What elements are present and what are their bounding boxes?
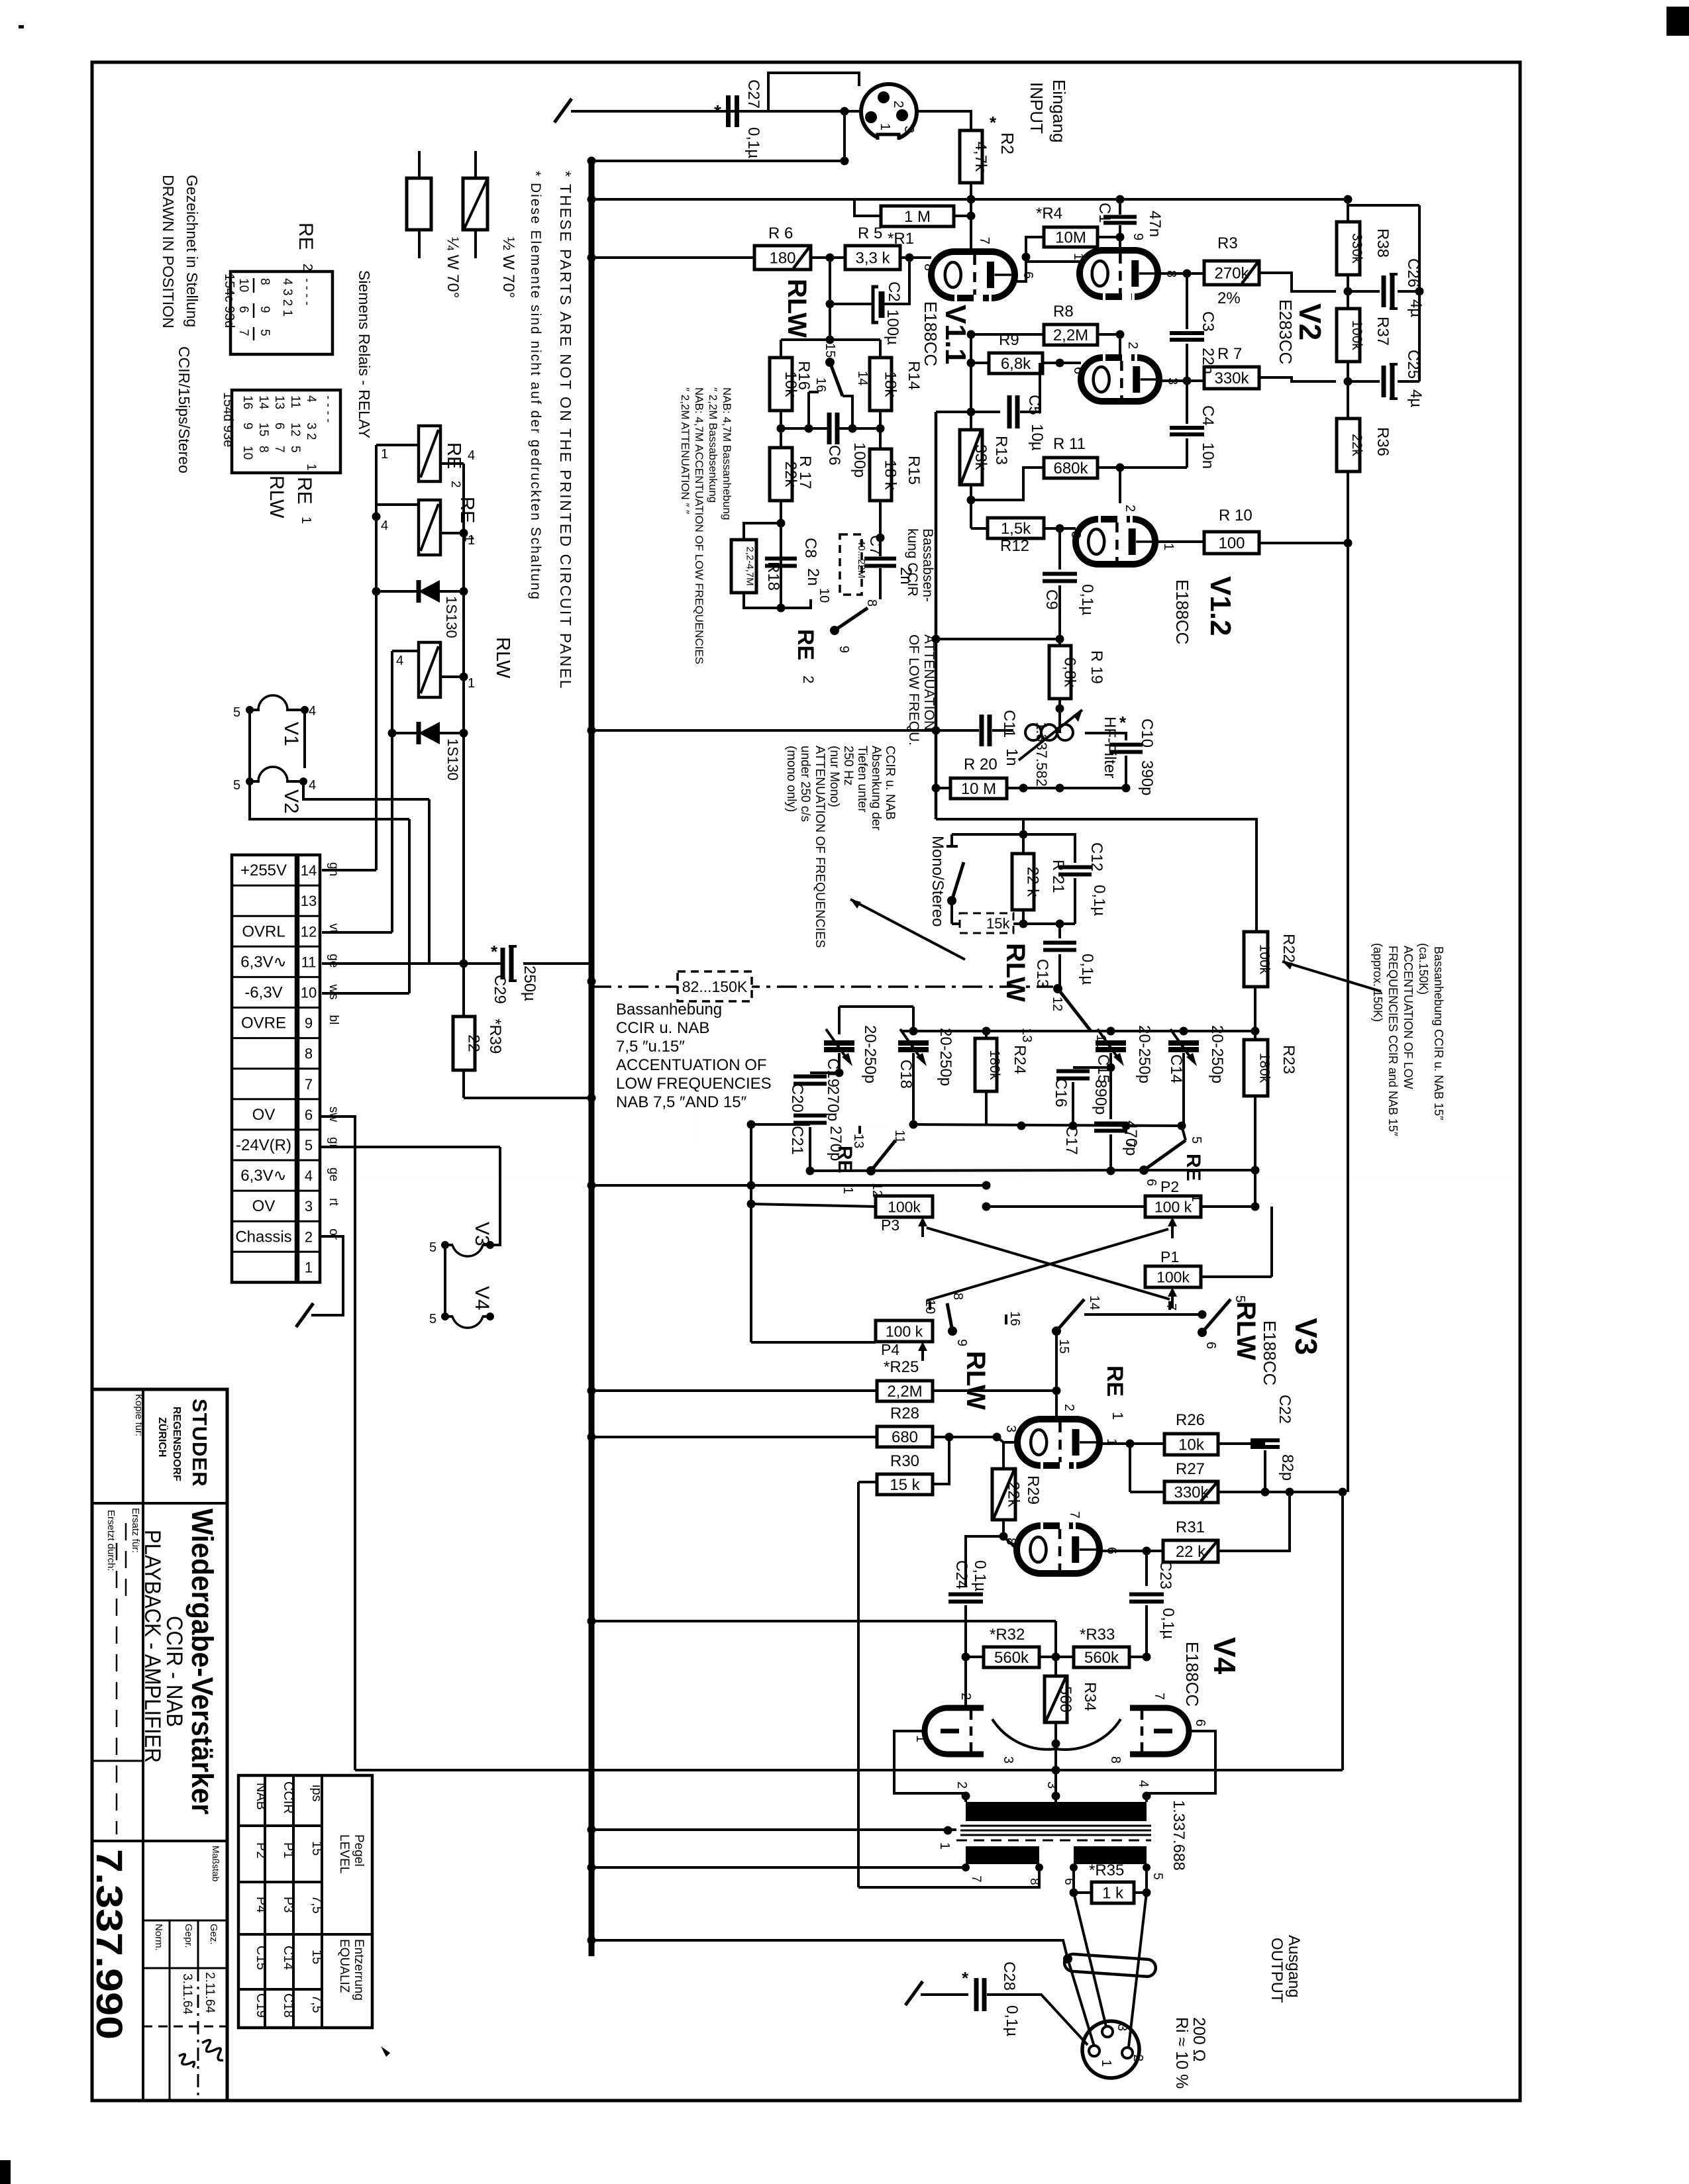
svg-text:rt: rt xyxy=(327,1198,340,1206)
wire R1-right xyxy=(954,215,971,217)
svg-text:R 20: R 20 xyxy=(964,756,998,773)
pin 8 V3b xyxy=(1003,1538,1018,1545)
label R37 xyxy=(1374,317,1392,346)
pin 2 V1.2b xyxy=(1123,505,1137,512)
resistor R19 xyxy=(1049,639,1079,733)
resistor R9 xyxy=(989,353,1043,373)
svg-text:1: 1 xyxy=(1071,253,1086,260)
svg-text:270p: 270p xyxy=(824,1086,842,1121)
svg-text:R34: R34 xyxy=(1081,1682,1099,1711)
svg-text:+255V: +255V xyxy=(240,862,287,879)
svg-text:CCIR: CCIR xyxy=(281,1781,295,1814)
tube V3a xyxy=(1017,1419,1100,1465)
svg-text:C4: C4 xyxy=(1199,405,1217,426)
svg-text:2: 2 xyxy=(891,101,905,108)
label C3 xyxy=(1199,311,1217,374)
svg-text:5: 5 xyxy=(1151,1873,1164,1880)
svg-text:18 k: 18 k xyxy=(882,460,899,490)
resistor R40 dashed xyxy=(840,534,880,595)
Gez label xyxy=(208,1924,219,1945)
svg-text:9: 9 xyxy=(954,1339,969,1346)
signature scribble 1 xyxy=(202,2040,223,2061)
rail y2930 output xyxy=(588,1936,1073,1964)
label C2 xyxy=(884,281,903,345)
svg-text:0,1µ: 0,1µ xyxy=(1078,584,1096,615)
svg-text:R13: R13 xyxy=(992,436,1010,465)
svg-text:3: 3 xyxy=(1003,1425,1018,1432)
resistor R39 xyxy=(453,964,596,1103)
pin labels V4 right xyxy=(1108,1693,1207,1763)
tube V1.1 xyxy=(931,252,1015,298)
label R25 xyxy=(884,1358,919,1376)
capacitor C23 xyxy=(1129,1551,1164,1662)
resistor R2 xyxy=(960,130,990,183)
wiper P3 xyxy=(918,1217,927,1237)
note Bassabsenkung kung CCIR xyxy=(905,528,935,602)
wire pin3 V3a xyxy=(997,1437,1017,1469)
wire bus-y243 xyxy=(588,111,849,166)
label R11 xyxy=(1053,435,1086,453)
label R16 xyxy=(795,361,813,390)
svg-text:LOW FREQUENCIES: LOW FREQUENCIES xyxy=(616,1075,772,1093)
svg-text:2: 2 xyxy=(1123,505,1137,512)
svg-text:R16: R16 xyxy=(795,361,813,390)
wire R36-R10 xyxy=(1347,472,1349,543)
label R1 xyxy=(888,230,914,248)
svg-text:1: 1 xyxy=(1161,543,1176,550)
switch arm 14 xyxy=(830,362,870,428)
pin 5 V3h xyxy=(429,1240,436,1255)
capacitor C7 xyxy=(864,559,896,595)
svg-text:E188CC: E188CC xyxy=(921,301,941,366)
svg-text:7,5: 7,5 xyxy=(309,1895,324,1914)
wire C26-top xyxy=(1348,199,1419,291)
resistor R32 xyxy=(966,1647,1056,1667)
svg-text:P2: P2 xyxy=(254,1842,268,1858)
svg-text:7: 7 xyxy=(1152,1693,1166,1700)
svg-text:180k: 180k xyxy=(987,1050,1002,1080)
svg-text:*R4: *R4 xyxy=(1036,205,1062,223)
svg-text:14: 14 xyxy=(301,862,317,879)
svg-text:C1: C1 xyxy=(1096,203,1113,223)
svg-text:C7: C7 xyxy=(866,535,884,556)
svg-text:RE: RE xyxy=(293,477,315,505)
wire R2-down xyxy=(967,183,976,252)
diode D2 1S130 xyxy=(392,722,464,744)
transformer secondary a xyxy=(966,1846,1039,1864)
svg-text:C24: C24 xyxy=(952,1560,970,1589)
label 154d93e xyxy=(221,392,235,447)
wire RE2-bus xyxy=(834,630,835,639)
svg-text:5: 5 xyxy=(305,1137,313,1154)
wire pin4 ge2 xyxy=(320,1177,1519,1178)
wire C29-bus xyxy=(523,962,591,965)
svg-text:*R25: *R25 xyxy=(884,1358,919,1376)
switch Mono/Stereo xyxy=(947,819,1075,924)
svg-text:R 7: R 7 xyxy=(1217,345,1242,363)
label HF-Filter xyxy=(1101,717,1119,778)
wire RE1m-RLWr xyxy=(1056,1311,1207,1333)
rail y1768 xyxy=(806,1167,1145,1175)
svg-text:Eingang: Eingang xyxy=(1049,79,1069,142)
title PLAYBACK-AMPLIFIER xyxy=(140,1530,165,1763)
svg-text:Ri ≈ 10 %: Ri ≈ 10 % xyxy=(1172,2017,1191,2089)
wire pin14 gn xyxy=(322,869,376,871)
svg-text:10n: 10n xyxy=(1199,442,1217,469)
switch RE2 arm xyxy=(830,608,868,653)
label R7 xyxy=(1217,345,1242,363)
svg-text:1: 1 xyxy=(304,464,318,471)
rail y1700 xyxy=(913,1122,1186,1130)
svg-text:NAB 7,5 ″AND 15″: NAB 7,5 ″AND 15″ xyxy=(616,1093,747,1111)
svg-text:C3: C3 xyxy=(1199,311,1217,332)
pin 1 V1.2b xyxy=(1161,543,1176,550)
label R13 xyxy=(992,436,1010,465)
tube V4 right half xyxy=(1130,1657,1189,1754)
wire P2-right xyxy=(1201,1170,1260,1211)
svg-text:Ersetzt durch:: Ersetzt durch: xyxy=(105,1510,117,1571)
label R29 xyxy=(1024,1475,1042,1505)
svg-text:V3: V3 xyxy=(471,1222,493,1246)
svg-text:1: 1 xyxy=(937,1842,952,1850)
svg-text:6,3V∿: 6,3V∿ xyxy=(240,1167,286,1185)
svg-text:11: 11 xyxy=(892,1130,907,1144)
wire C21-rail xyxy=(809,1127,811,1171)
svg-text:10M: 10M xyxy=(1055,229,1086,247)
rail y1520 xyxy=(839,1005,913,1008)
wire P1-right xyxy=(1201,1207,1272,1277)
label RLW right big xyxy=(1231,1301,1260,1360)
svg-text:2: 2 xyxy=(448,481,462,488)
svg-text:C11: C11 xyxy=(1000,710,1018,738)
svg-text:6: 6 xyxy=(272,422,286,430)
svg-text:ips: ips xyxy=(309,1785,324,1802)
svg-text:4µ: 4µ xyxy=(1407,389,1425,407)
svg-text:RLW: RLW xyxy=(961,1351,990,1410)
wire V4R bracket xyxy=(1143,1731,1216,1802)
svg-text:6: 6 xyxy=(1021,272,1035,279)
label 1S130 D2 xyxy=(444,738,461,781)
equalization table grid xyxy=(238,1775,372,2028)
svg-text:154d 93e: 154d 93e xyxy=(221,392,235,447)
svg-text:ge: ge xyxy=(327,1167,340,1181)
svg-text:2,2M: 2,2M xyxy=(1053,326,1088,344)
svg-text:330k: 330k xyxy=(1349,233,1364,264)
svg-text:560k: 560k xyxy=(1084,1649,1119,1667)
wiper P2 xyxy=(1168,1217,1177,1238)
capacitor C25 xyxy=(1348,291,1419,399)
svg-text:OVRE: OVRE xyxy=(241,1015,286,1032)
STUDER logo xyxy=(188,1399,211,1487)
svg-text:P2: P2 xyxy=(1160,1178,1179,1195)
label R3 xyxy=(1217,234,1238,252)
svg-text:200 Ω: 200 Ω xyxy=(1190,2017,1208,2061)
heater V1 xyxy=(246,695,309,768)
resistor R1 1M xyxy=(881,206,954,226)
svg-text:C13: C13 xyxy=(1033,959,1051,988)
date 2.11.64 xyxy=(203,1972,217,2013)
svg-text:14: 14 xyxy=(256,395,270,410)
transformer sec pins xyxy=(962,1863,1164,1885)
label C9 xyxy=(1043,584,1096,615)
svg-text:R2: R2 xyxy=(998,132,1017,154)
capacitor C24 xyxy=(948,1595,983,1662)
svg-text:C18: C18 xyxy=(897,1060,915,1089)
svg-text:ACCENTUATION OF LOW: ACCENTUATION OF LOW xyxy=(1402,946,1415,1089)
svg-text:10: 10 xyxy=(301,984,317,1001)
wire R35-xlr3 xyxy=(1074,1893,1106,2026)
wire R12-right xyxy=(1044,524,1076,533)
svg-text:1: 1 xyxy=(841,1187,855,1194)
dash-dot link xyxy=(588,977,1054,987)
svg-text:½ W 70°: ½ W 70° xyxy=(499,237,517,298)
legend label 1/4W xyxy=(444,237,462,298)
svg-text:2: 2 xyxy=(958,1693,973,1700)
svg-text:Mono/Stereo: Mono/Stereo xyxy=(929,836,947,926)
capacitor C28 xyxy=(976,1978,984,2011)
svg-text:1 k: 1 k xyxy=(1102,1885,1124,1903)
svg-text:Siemens Relais - RELAY: Siemens Relais - RELAY xyxy=(356,270,373,438)
svg-text:Chassis: Chassis xyxy=(235,1228,291,1246)
wire ground-xlr xyxy=(571,107,861,116)
svg-text:180k: 180k xyxy=(1256,1053,1272,1083)
svg-text:FREQUENCIES CCIR and NAB 15: FREQUENCIES CCIR and NAB 15″ xyxy=(1386,946,1400,1136)
svg-text:22k: 22k xyxy=(1349,434,1364,456)
svg-text:6: 6 xyxy=(1144,1179,1158,1186)
pin 5 V4h xyxy=(429,1312,436,1326)
label C11 xyxy=(1000,710,1021,766)
pin 3 V3a xyxy=(1003,1425,1018,1432)
wire R17-down xyxy=(777,501,786,613)
pointer line 15k xyxy=(850,899,965,960)
wiper P4 xyxy=(918,1342,927,1361)
note Bassanhebung block xyxy=(616,1001,772,1111)
svg-text:HF-Filter: HF-Filter xyxy=(1101,717,1119,778)
wire R26-C22 xyxy=(1218,1442,1265,1445)
long line x2035 xyxy=(1347,543,1349,1492)
svg-text:C18: C18 xyxy=(281,1993,295,2018)
label R15 xyxy=(905,456,923,485)
tube V2a xyxy=(1080,250,1158,297)
svg-text:R 19: R 19 xyxy=(1088,650,1105,684)
label Mono/Stereo xyxy=(929,836,947,926)
svg-text:- - - -: - - - - xyxy=(321,395,335,422)
capacitor C17 xyxy=(1094,1067,1127,1171)
svg-text:Gepr.: Gepr. xyxy=(183,1924,194,1948)
svg-text:3: 3 xyxy=(1115,2024,1129,2031)
junction R38-R37 xyxy=(1344,275,1353,309)
svg-text:C20: C20 xyxy=(788,1083,806,1113)
svg-text:82p: 82p xyxy=(1278,1454,1296,1481)
svg-text:1: 1 xyxy=(381,447,388,462)
svg-text:R9: R9 xyxy=(999,331,1019,349)
svg-text:100p: 100p xyxy=(850,442,868,477)
wire R3-R38 xyxy=(1259,273,1336,291)
wiper P1 xyxy=(1168,1287,1177,1309)
label C5 xyxy=(1025,395,1046,451)
label RLW legend xyxy=(266,475,287,519)
XLR output shell xyxy=(1082,2021,1139,2078)
pin 1 RLW xyxy=(468,676,475,691)
rail y2673 xyxy=(355,1744,1343,1802)
svg-text:8: 8 xyxy=(258,278,272,285)
rail y2848 sec7 xyxy=(588,1482,966,1887)
switch RLW left xyxy=(923,1293,1022,1346)
contact 8 xyxy=(864,595,880,607)
label E188CC V4 xyxy=(1182,1642,1202,1707)
wire RE1r-R23 xyxy=(1144,1166,1260,1175)
svg-text:16: 16 xyxy=(240,395,254,409)
note CCIR/15ips/Stereo xyxy=(176,346,193,473)
signature scribble 2 xyxy=(179,2054,195,2067)
svg-text:R27: R27 xyxy=(1176,1460,1205,1478)
svg-text:REGENSDORF: REGENSDORF xyxy=(171,1407,182,1481)
label C27 xyxy=(714,79,762,158)
pin 9 V2 xyxy=(1131,233,1145,240)
resistor R31 xyxy=(1163,1540,1218,1562)
svg-text:NAB: 4,7M Bassanhebung: NAB: 4,7M Bassanhebung xyxy=(721,387,733,520)
svg-text:7,5 ″u.15″: 7,5 ″u.15″ xyxy=(616,1038,685,1056)
svg-text:vt: vt xyxy=(327,923,340,934)
svg-text:OVRL: OVRL xyxy=(242,922,285,940)
tube V3b xyxy=(1017,1526,1100,1573)
border frame xyxy=(92,62,1520,2101)
Gepr label xyxy=(183,1924,194,1948)
rail bus-R6 xyxy=(588,254,755,262)
diag P2-to-RLWl xyxy=(927,1229,1168,1301)
svg-text:R3: R3 xyxy=(1217,234,1238,252)
pot P1 xyxy=(1145,1266,1201,1287)
wire V4L bracket xyxy=(894,1731,970,1802)
resistor R12 xyxy=(988,518,1044,538)
wire x648 down xyxy=(322,799,464,964)
resistor R17 xyxy=(770,428,799,501)
rail y1235 xyxy=(936,819,1256,932)
svg-text:R22: R22 xyxy=(1280,934,1298,963)
label RE1 coil xyxy=(456,497,478,542)
Ersatz fuer xyxy=(130,1508,141,1553)
tube V4 left half xyxy=(925,1657,984,1754)
svg-text:7: 7 xyxy=(305,1076,313,1093)
svg-text:*: * xyxy=(714,101,721,122)
svg-text:3 2: 3 2 xyxy=(304,422,318,440)
wire pin6 sw xyxy=(320,1117,355,1770)
svg-text:P4: P4 xyxy=(881,1341,899,1358)
svg-text:100 k: 100 k xyxy=(1154,1198,1192,1215)
svg-text:1.337.582: 1.337.582 xyxy=(1033,722,1050,787)
rail P3 xyxy=(747,1200,876,1343)
svg-text:560k: 560k xyxy=(994,1649,1029,1667)
svg-text:*R32: *R32 xyxy=(990,1626,1025,1644)
svg-text:2: 2 xyxy=(1131,2054,1145,2061)
wire R9-left xyxy=(967,334,990,368)
wire V3b-R31 xyxy=(1100,1547,1163,1556)
label R22 xyxy=(1280,934,1298,963)
XLR pin labels xyxy=(878,101,916,133)
svg-text:14: 14 xyxy=(855,371,870,385)
svg-text:INPUT: INPUT xyxy=(1027,82,1047,134)
svg-text:15k: 15k xyxy=(986,915,1010,932)
label R30 xyxy=(890,1452,919,1470)
label R4 xyxy=(1036,205,1062,223)
svg-text:- - - -: - - - - xyxy=(300,278,314,305)
svg-text:sw: sw xyxy=(327,1107,340,1122)
box 82-150k xyxy=(678,971,752,1001)
svg-text:C27: C27 xyxy=(744,79,762,109)
table Entzerrung EQUALIZ xyxy=(337,1939,366,2001)
capacitor C20 xyxy=(695,1073,839,1150)
wire R7-right xyxy=(1259,377,1336,381)
diode D1 1S130 xyxy=(376,580,464,603)
svg-text:kung CCIR: kung CCIR xyxy=(905,528,920,597)
wire V2-R3 xyxy=(1158,270,1204,278)
svg-text:NAB: NAB xyxy=(254,1783,268,1810)
label RE2 coil xyxy=(443,442,464,488)
svg-text:Kopie für:: Kopie für: xyxy=(133,1394,144,1436)
svg-text:5: 5 xyxy=(1189,1136,1203,1144)
svg-text:1: 1 xyxy=(299,517,313,524)
wire sw-V3grid xyxy=(1052,1331,1061,1419)
svg-text:20-250p: 20-250p xyxy=(861,1025,879,1083)
svg-text:C12: C12 xyxy=(1088,842,1105,871)
V4 middle arc xyxy=(992,1719,1121,1750)
label P3 xyxy=(881,1216,899,1234)
pin 6 V1.2a xyxy=(1071,367,1086,374)
resistor R24 xyxy=(975,1031,1002,1126)
switch contact 16 xyxy=(809,377,828,428)
rail R28 xyxy=(588,1433,878,1442)
svg-text:C5: C5 xyxy=(1025,395,1043,415)
svg-text:Pegel: Pegel xyxy=(352,1834,366,1867)
svg-text:0,1µ: 0,1µ xyxy=(1003,2005,1021,2036)
svg-text:8: 8 xyxy=(1108,1756,1123,1763)
svg-text:CCIR u. NAB: CCIR u. NAB xyxy=(883,746,897,820)
label 1.337.582 xyxy=(1033,722,1050,787)
svg-text:C22: C22 xyxy=(1276,1395,1294,1424)
resistor R29 xyxy=(992,1469,1023,1520)
svg-text:10: 10 xyxy=(236,278,250,292)
svg-text:0,1µ: 0,1µ xyxy=(744,127,762,158)
wire R1-left xyxy=(854,199,881,216)
svg-text:6,8k: 6,8k xyxy=(1061,657,1079,687)
svg-text:RLW: RLW xyxy=(1001,943,1030,1002)
svg-text:18k: 18k xyxy=(882,372,899,398)
wire pin5 gr xyxy=(320,1146,500,1148)
wire x592 xyxy=(391,651,393,932)
svg-text:R23: R23 xyxy=(1280,1045,1298,1074)
title Wiedergabe-Verstaerker xyxy=(185,1509,219,1814)
svg-text:RE: RE xyxy=(443,442,464,469)
svg-text:Wiedergabe-Verstärker: Wiedergabe-Verstärker xyxy=(185,1509,219,1814)
svg-text:V4: V4 xyxy=(471,1286,493,1311)
capacitor C29 xyxy=(464,946,517,981)
label C22 xyxy=(1276,1395,1296,1481)
svg-text:*R39: *R39 xyxy=(486,1018,504,1054)
svg-text:330k: 330k xyxy=(1214,370,1249,387)
wire R9-right xyxy=(1043,359,1081,368)
wire V1-R4 xyxy=(1015,253,1031,282)
chassis ground xyxy=(296,1303,313,1327)
svg-text:Gezeichnet in Stellung: Gezeichnet in Stellung xyxy=(183,175,201,327)
svg-text:ACCENTUATION OF: ACCENTUATION OF xyxy=(616,1056,767,1074)
svg-text:V1: V1 xyxy=(280,722,302,746)
svg-text:2: 2 xyxy=(800,675,817,683)
svg-text:NAB: 4,7M ACCENTUATION OF LO: NAB: 4,7M ACCENTUATION OF LOW FREQUENCIE… xyxy=(693,387,705,664)
resistor R21 xyxy=(1012,834,1042,928)
svg-text:8: 8 xyxy=(921,264,936,271)
label RE1 legend xyxy=(293,477,315,524)
transformer pins top xyxy=(954,1780,1151,1789)
